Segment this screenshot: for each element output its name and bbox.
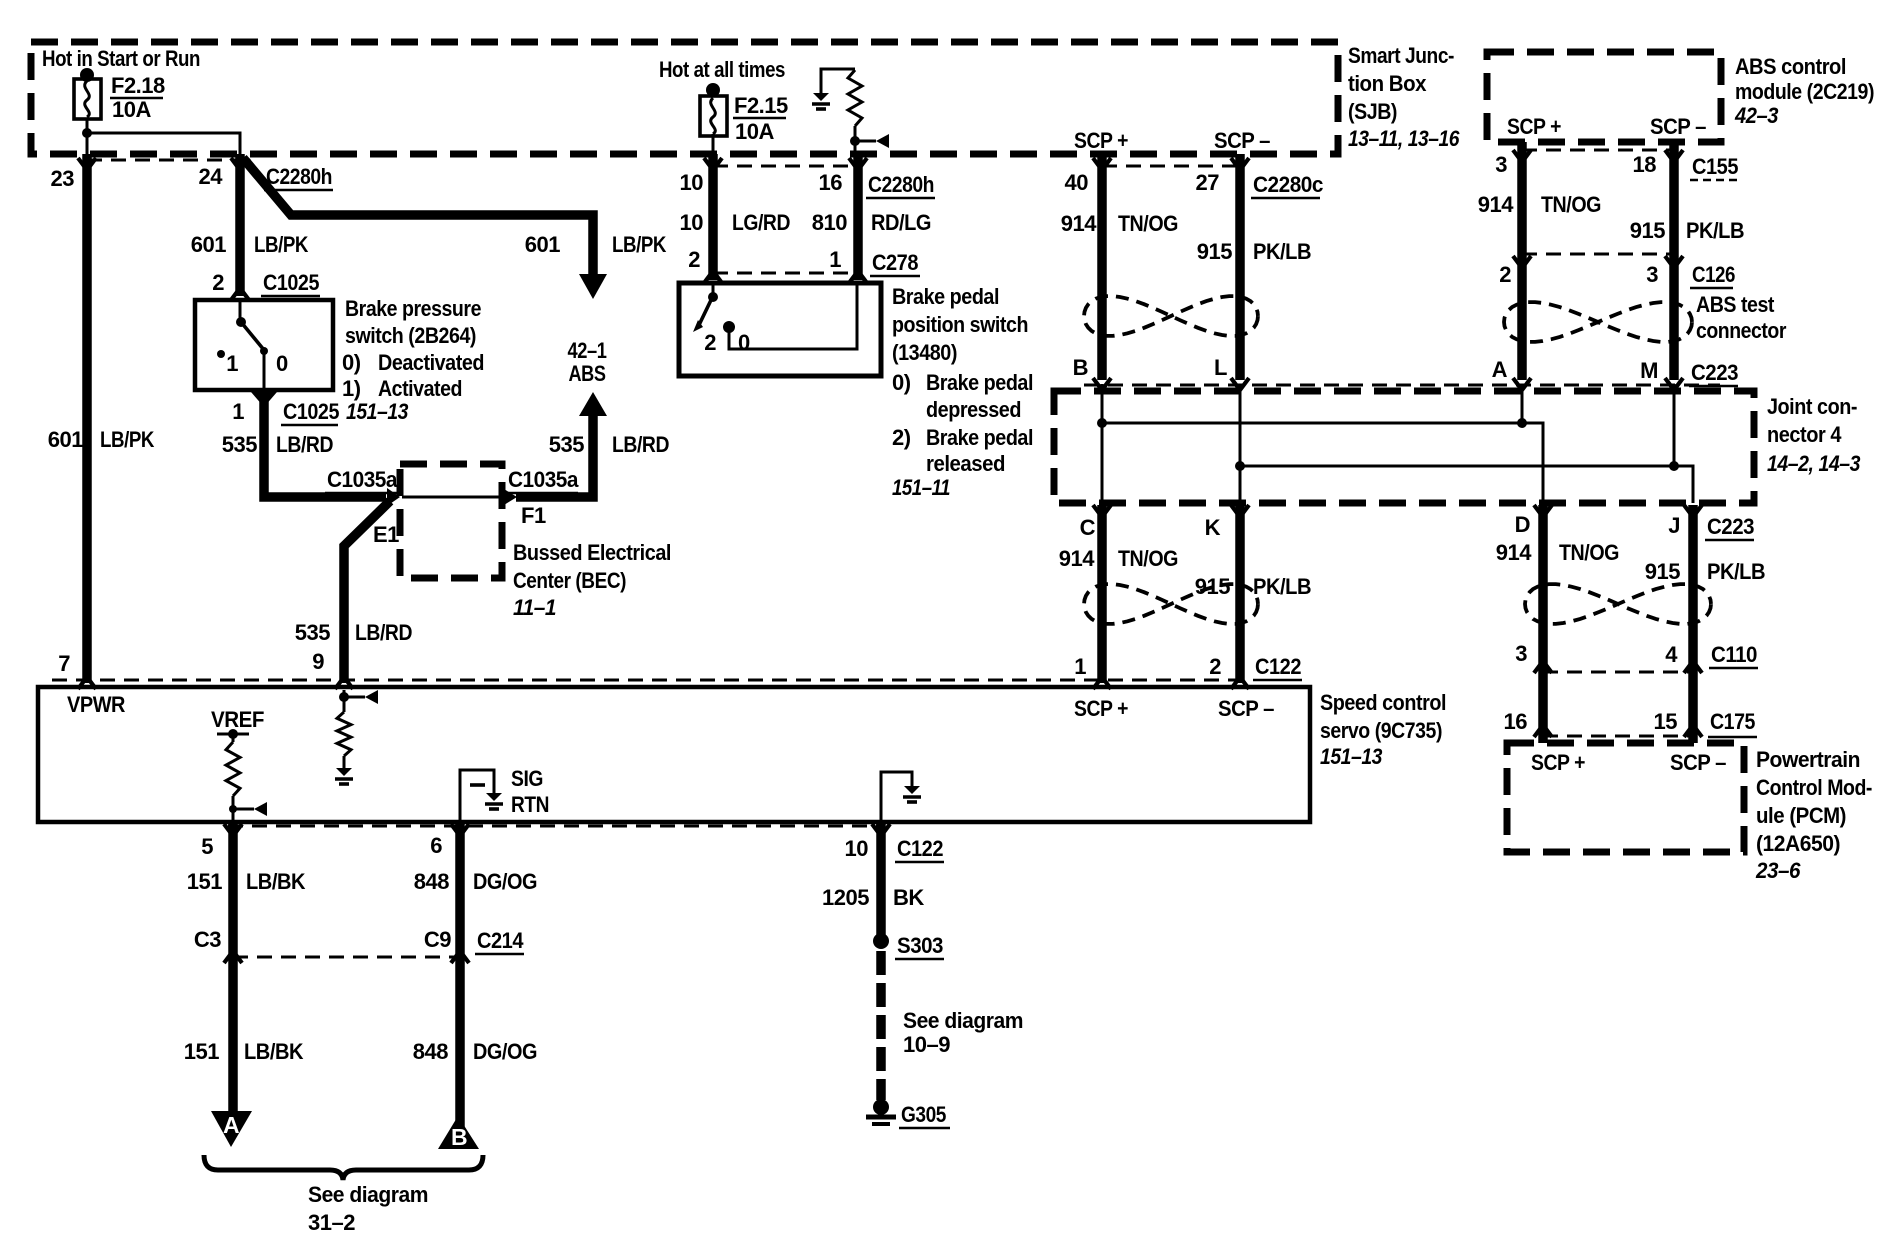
- speed control servo (9C735) box: [38, 687, 1310, 822]
- svg-text:C278: C278: [872, 250, 918, 275]
- ground symbol pin 9: [336, 768, 352, 776]
- svg-text:C3: C3: [194, 927, 221, 952]
- svg-text:B: B: [1073, 355, 1088, 380]
- connector arrow joint connector out pin: [1093, 505, 1111, 517]
- svg-text:C9: C9: [424, 927, 451, 952]
- svg-text:0: 0: [738, 330, 750, 355]
- pedal switch pivot node: [708, 292, 718, 302]
- svg-text:connector: connector: [1696, 318, 1787, 343]
- wire 601 LB/PK to 42-1 ABS: [243, 158, 593, 276]
- svg-text:40: 40: [1065, 170, 1089, 195]
- svg-text:11–1: 11–1: [513, 595, 556, 620]
- svg-text:(13480): (13480): [892, 340, 957, 365]
- ground hook in SJB: [821, 69, 855, 93]
- junction node M bus: [1669, 461, 1679, 471]
- svg-text:LB/PK: LB/PK: [100, 427, 155, 452]
- svg-text:18: 18: [1633, 152, 1657, 177]
- svg-text:151–13: 151–13: [1320, 744, 1382, 769]
- wire 915 PK/LB joint J to PCM pin 15: [1688, 505, 1698, 743]
- brake pedal position switch (13480) box: [679, 283, 881, 376]
- svg-text:module (2C219): module (2C219): [1735, 79, 1874, 104]
- svg-text:B: B: [451, 1124, 467, 1150]
- svg-text:LB/RD: LB/RD: [612, 432, 669, 457]
- connector arrow C1025 pin 2: [231, 288, 249, 300]
- svg-text:F1: F1: [521, 503, 546, 528]
- svg-text:535: 535: [295, 620, 330, 645]
- connector C122 line (servo top): [52, 679, 1245, 682]
- svg-text:PK/LB: PK/LB: [1707, 559, 1765, 584]
- svg-text:TN/OG: TN/OG: [1118, 211, 1178, 236]
- svg-text:C110: C110: [1711, 642, 1757, 667]
- connector arrow C2280h pin: [231, 158, 249, 170]
- svg-text:4: 4: [1665, 642, 1678, 667]
- wire 810 RD/LG pin 16 to pedal switch pin 1: [853, 154, 863, 280]
- pedal switch pivot wire: [712, 285, 715, 297]
- pedal switch arm: [699, 298, 712, 325]
- svg-text:D: D: [1515, 512, 1530, 537]
- svg-text:10: 10: [845, 836, 869, 861]
- svg-text:914: 914: [1496, 540, 1532, 565]
- wire 535 LB/RD BEC F1 to 42-1 ABS: [516, 414, 593, 497]
- junction node below resistor: [850, 136, 860, 146]
- connector arrow C175 pin: [1534, 725, 1552, 737]
- svg-text:SCP +: SCP +: [1507, 114, 1561, 139]
- svg-text:position switch: position switch: [892, 312, 1028, 337]
- pressure switch output wire: [263, 351, 266, 388]
- svg-text:2: 2: [704, 330, 716, 355]
- connector arrow joint connector out pin: [1684, 505, 1702, 517]
- junction node L bus: [1235, 461, 1245, 471]
- svg-text:DG/OG: DG/OG: [473, 1039, 537, 1064]
- connector arrow C278 pin: [849, 271, 867, 283]
- svg-text:RD/LG: RD/LG: [871, 210, 931, 235]
- svg-text:See diagram: See diagram: [903, 1008, 1023, 1033]
- pressure switch pivot wire: [239, 302, 242, 322]
- pin 9 resistor: [337, 712, 351, 756]
- svg-text:SCP +: SCP +: [1531, 750, 1585, 775]
- svg-text:C1025: C1025: [263, 270, 319, 295]
- svg-text:L: L: [1214, 355, 1227, 380]
- ground symbol SIG RTN: [486, 793, 502, 801]
- wire 915 PK/LB joint K to servo pin 2: [1235, 505, 1245, 683]
- connector arrow C2280h pin: [704, 158, 722, 170]
- svg-text:0: 0: [276, 351, 288, 376]
- arrow A: [211, 1111, 252, 1147]
- svg-text:27: 27: [1196, 170, 1220, 195]
- VREF wire: [232, 734, 235, 742]
- svg-text:C223: C223: [1707, 514, 1754, 539]
- svg-text:Hot in Start or Run: Hot in Start or Run: [42, 46, 200, 71]
- wire 535 LB/RD BEC E1 branch to servo pin 9: [344, 501, 390, 683]
- svg-text:(12A650): (12A650): [1756, 831, 1840, 856]
- svg-text:M: M: [1640, 358, 1658, 383]
- svg-text:TN/OG: TN/OG: [1118, 546, 1178, 571]
- svg-text:31–2: 31–2: [308, 1210, 355, 1235]
- connector arrow C126 pin: [1513, 256, 1531, 268]
- svg-text:915: 915: [1645, 559, 1680, 584]
- connector arrow joint connector out pin: [1534, 505, 1552, 517]
- svg-text:SCP –: SCP –: [1218, 696, 1274, 721]
- connector arrow joint connector out pin: [1231, 505, 1249, 517]
- wire 914 TN/OG joint C to servo pin 1: [1097, 505, 1107, 683]
- svg-text:10: 10: [680, 170, 704, 195]
- svg-text:E1: E1: [373, 522, 399, 547]
- pin 9 wiper stub: [344, 696, 365, 699]
- svg-text:SCP +: SCP +: [1074, 128, 1128, 153]
- connector C110 line: [1543, 671, 1693, 674]
- SIG RTN minus mark: [470, 783, 485, 787]
- connector arrow C175 pin: [1684, 725, 1702, 737]
- svg-text:2: 2: [688, 247, 700, 272]
- svg-text:7: 7: [58, 651, 70, 676]
- VREF wire lower: [232, 796, 235, 824]
- brace under A and B: [204, 1155, 483, 1180]
- connector C122 line (servo bottom): [228, 825, 881, 828]
- svg-text:Brake pedal: Brake pedal: [926, 425, 1033, 450]
- arrow out of BEC F1: [504, 489, 517, 505]
- svg-text:16: 16: [819, 170, 843, 195]
- svg-text:601: 601: [48, 427, 83, 452]
- fuse F2.15 10A: [706, 83, 720, 97]
- pressure switch arm: [241, 322, 264, 350]
- joint connector wire B-C: [1101, 384, 1104, 503]
- connector C175 line: [1543, 735, 1693, 738]
- svg-text:servo (9C735): servo (9C735): [1320, 718, 1442, 743]
- svg-text:0): 0): [342, 350, 361, 375]
- svg-text:nector 4: nector 4: [1767, 422, 1842, 447]
- svg-text:151: 151: [184, 1039, 219, 1064]
- svg-text:1: 1: [232, 399, 244, 424]
- svg-text:PK/LB: PK/LB: [1686, 218, 1744, 243]
- svg-text:switch (2B264): switch (2B264): [345, 323, 476, 348]
- svg-text:15: 15: [1654, 709, 1678, 734]
- junction node below F2.18: [82, 128, 92, 138]
- svg-text:0): 0): [892, 370, 911, 395]
- connector C2280h line (pins 10/16): [713, 165, 858, 168]
- connector arrow C223 pin: [1093, 378, 1111, 390]
- svg-text:Deactivated: Deactivated: [378, 350, 484, 375]
- svg-text:1: 1: [829, 247, 841, 272]
- svg-text:C155: C155: [1692, 154, 1738, 179]
- svg-text:C2280h: C2280h: [868, 172, 934, 197]
- svg-text:1): 1): [342, 376, 361, 401]
- svg-text:SCP –: SCP –: [1650, 114, 1706, 139]
- servo pin 9 internal wire: [343, 690, 346, 712]
- svg-text:13–11, 13–16: 13–11, 13–16: [1348, 126, 1460, 151]
- svg-text:C214: C214: [477, 928, 524, 953]
- connector arrow C214 pin: [224, 951, 242, 963]
- pressure switch contact 1 node: [217, 350, 225, 358]
- svg-text:LB/PK: LB/PK: [254, 232, 309, 257]
- svg-text:LB/BK: LB/BK: [246, 869, 306, 894]
- svg-text:DG/OG: DG/OG: [473, 869, 537, 894]
- svg-text:C2280c: C2280c: [1253, 172, 1323, 197]
- svg-text:TN/OG: TN/OG: [1541, 192, 1601, 217]
- svg-text:914: 914: [1059, 546, 1095, 571]
- pin 10 internal wire: [881, 772, 912, 824]
- twisted pair upper left: [1084, 296, 1258, 336]
- svg-text:1: 1: [226, 351, 238, 376]
- svg-text:C122: C122: [897, 836, 943, 861]
- svg-text:A: A: [223, 1112, 239, 1138]
- svg-text:2: 2: [1499, 262, 1511, 287]
- svg-text:810: 810: [812, 210, 847, 235]
- wire 535 LB/RD switch pin 1 to BEC E1: [264, 392, 386, 497]
- splice S303: [873, 933, 889, 949]
- svg-text:SCP +: SCP +: [1074, 696, 1128, 721]
- wire fuse F2.15 to pin 10: [712, 134, 715, 154]
- svg-text:SIG: SIG: [511, 766, 543, 791]
- svg-text:Brake pedal: Brake pedal: [926, 370, 1033, 395]
- joint connector bus lower (L-M-J): [1240, 466, 1693, 503]
- connector arrow C2280h pin: [78, 158, 96, 170]
- Smart Junction Box (SJB) dashed outline: [31, 42, 1338, 154]
- wire 914 TN/OG joint D to PCM pin 16: [1538, 505, 1548, 743]
- svg-text:2: 2: [212, 270, 224, 295]
- wire fuse F2.18 to junction: [86, 119, 89, 154]
- svg-text:2: 2: [1209, 654, 1221, 679]
- connector arrow servo bottom pin: [872, 824, 890, 836]
- svg-text:10A: 10A: [112, 97, 151, 122]
- svg-text:SCP –: SCP –: [1670, 750, 1726, 775]
- svg-text:915: 915: [1195, 574, 1230, 599]
- connector arrow C110 pin: [1684, 661, 1702, 673]
- ABS control module (2C219) dashed outline: [1487, 52, 1721, 142]
- svg-text:9: 9: [312, 649, 324, 674]
- svg-text:151–13: 151–13: [346, 399, 408, 424]
- svg-text:K: K: [1205, 515, 1221, 540]
- joint connector wire M stub: [1673, 384, 1676, 466]
- svg-text:Bussed Electrical: Bussed Electrical: [513, 540, 671, 565]
- ground G305: [873, 1099, 889, 1115]
- connector arrow servo bottom pin: [451, 824, 469, 836]
- svg-text:A: A: [1492, 357, 1508, 382]
- brake pressure switch (2B264) box: [195, 300, 333, 390]
- wire 1205 BK servo pin 10 to S303: [876, 824, 886, 936]
- twisted pair lower left: [1084, 584, 1258, 624]
- wire 601 LB/PK pin 23 to servo pin 7: [82, 154, 92, 683]
- svg-text:3: 3: [1515, 641, 1527, 666]
- svg-text:C1035a: C1035a: [508, 467, 579, 492]
- svg-text:F2.15: F2.15: [734, 93, 788, 118]
- VREF tap bar: [217, 733, 249, 736]
- svg-text:535: 535: [222, 432, 257, 457]
- svg-text:Center (BEC): Center (BEC): [513, 568, 626, 593]
- svg-text:C1025: C1025: [283, 399, 339, 424]
- wire 914 TN/OG SJB pin 40 to joint connector B: [1097, 154, 1107, 380]
- svg-text:Brake pressure: Brake pressure: [345, 296, 481, 321]
- ground symbol pin 10: [904, 786, 920, 794]
- svg-text:601: 601: [525, 232, 560, 257]
- connector arrow C110 pin: [1534, 661, 1552, 673]
- svg-text:14–2, 14–3: 14–2, 14–3: [1767, 451, 1860, 476]
- svg-text:915: 915: [1197, 239, 1232, 264]
- connector arrow C223 pin: [1513, 378, 1531, 390]
- svg-text:LB/BK: LB/BK: [244, 1039, 304, 1064]
- svg-text:RTN: RTN: [511, 792, 549, 817]
- svg-text:VREF: VREF: [211, 707, 264, 732]
- up arrow to 42-1 ABS: [579, 392, 607, 416]
- connector C2280h line (pins 23/24): [87, 159, 240, 162]
- svg-text:ABS control: ABS control: [1735, 54, 1846, 79]
- svg-text:TN/OG: TN/OG: [1559, 540, 1619, 565]
- svg-text:C: C: [1080, 515, 1096, 540]
- svg-text:2): 2): [892, 425, 911, 450]
- svg-text:VPWR: VPWR: [67, 692, 126, 717]
- Bussed Electrical Center (BEC) dashed outline: [400, 464, 502, 578]
- wire 601 LB/PK pin 24 to brake pressure switch pin 2: [235, 154, 245, 296]
- connector arrow servo top pin: [1093, 677, 1111, 689]
- connector C278 line: [713, 272, 858, 275]
- svg-text:J: J: [1668, 513, 1680, 538]
- svg-text:F2.18: F2.18: [111, 73, 165, 98]
- connector arrow C155 pin: [1665, 150, 1683, 162]
- arrow into BEC E1: [387, 488, 400, 506]
- pin 9 resistor to ground: [343, 756, 346, 768]
- svg-text:914: 914: [1061, 211, 1097, 236]
- ground symbol in SJB: [813, 93, 829, 101]
- svg-text:ABS test: ABS test: [1696, 292, 1775, 317]
- svg-text:23: 23: [51, 166, 75, 191]
- fuse F2.18 10A: [80, 68, 94, 82]
- svg-text:C1035a: C1035a: [327, 467, 398, 492]
- connector arrow servo top pin: [1231, 677, 1249, 689]
- connector arrow C2280h pin: [849, 158, 867, 170]
- svg-text:Powertrain: Powertrain: [1756, 747, 1860, 772]
- arrow below pressure switch pin 1: [251, 392, 277, 407]
- joint connector wire A stub: [1521, 384, 1524, 423]
- svg-text:LG/RD: LG/RD: [732, 210, 790, 235]
- svg-text:depressed: depressed: [926, 397, 1021, 422]
- svg-text:23–6: 23–6: [1755, 858, 1801, 883]
- junction node B bus: [1097, 418, 1107, 428]
- svg-text:PK/LB: PK/LB: [1253, 239, 1311, 264]
- joint connector wire L-K: [1239, 384, 1242, 503]
- svg-text:151–11: 151–11: [892, 475, 950, 500]
- BEC internal wire E1 to F1: [402, 496, 502, 499]
- svg-text:tion Box: tion Box: [1348, 71, 1427, 96]
- svg-text:Smart Junc-: Smart Junc-: [1348, 43, 1454, 68]
- svg-text:10: 10: [680, 210, 704, 235]
- SIG RTN internal wire: [460, 770, 494, 824]
- svg-text:1: 1: [1074, 654, 1086, 679]
- wire 151 LB/BK servo pin 5 to A: [228, 824, 238, 1113]
- pedal switch contact 0 node: [723, 321, 735, 333]
- svg-text:PK/LB: PK/LB: [1253, 574, 1311, 599]
- dashed wire S303 to G305: [876, 951, 886, 1100]
- svg-text:3: 3: [1495, 152, 1507, 177]
- svg-text:See diagram: See diagram: [308, 1182, 428, 1207]
- svg-text:Activated: Activated: [378, 376, 462, 401]
- svg-text:151: 151: [187, 869, 222, 894]
- svg-text:BK: BK: [893, 885, 924, 910]
- svg-text:535: 535: [549, 432, 584, 457]
- svg-text:915: 915: [1630, 218, 1665, 243]
- joint connector bus upper (B-A-D): [1102, 423, 1543, 503]
- connector arrow servo bottom pin: [224, 824, 242, 836]
- svg-text:C223: C223: [1691, 360, 1738, 385]
- svg-text:C2280h: C2280h: [266, 164, 332, 189]
- connector C2280c line (pins 40/27): [1102, 165, 1240, 168]
- twisted pair lower right: [1525, 584, 1711, 624]
- connector arrow C214 pin: [451, 951, 469, 963]
- svg-text:5: 5: [201, 834, 213, 859]
- wire resistor to pin 16: [854, 126, 857, 154]
- VREF wiper stub: [233, 808, 254, 811]
- connector C155 line: [1522, 149, 1674, 152]
- svg-text:Joint con-: Joint con-: [1767, 394, 1857, 419]
- svg-text:ABS: ABS: [569, 361, 606, 386]
- svg-text:C122: C122: [1255, 654, 1301, 679]
- connector arrow C223 pin: [1665, 378, 1683, 390]
- svg-text:Hot at all times: Hot at all times: [659, 57, 785, 82]
- svg-text:SCP –: SCP –: [1214, 128, 1270, 153]
- svg-text:Speed control: Speed control: [1320, 690, 1446, 715]
- junction node A bus: [1517, 418, 1527, 428]
- connector arrow C2280c pin: [1231, 158, 1249, 170]
- svg-text:16: 16: [1504, 709, 1528, 734]
- svg-text:ule (PCM): ule (PCM): [1756, 803, 1846, 828]
- svg-text:3: 3: [1646, 262, 1658, 287]
- wire 915 PK/LB ABS pin 18 to joint connector M: [1669, 142, 1679, 380]
- twisted pair ABS test connector: [1504, 302, 1692, 342]
- svg-text:6: 6: [430, 833, 442, 858]
- wire 914 TN/OG ABS pin 3 to joint connector A: [1517, 142, 1527, 380]
- svg-text:1205: 1205: [822, 885, 869, 910]
- svg-text:Control Mod-: Control Mod-: [1756, 775, 1872, 800]
- svg-text:601: 601: [191, 232, 226, 257]
- connector arrow C126 pin: [1665, 256, 1683, 268]
- Joint connector 4 dashed outline: [1054, 391, 1754, 503]
- wire 10 LG/RD pin 10 to pedal switch pin 2: [708, 154, 718, 280]
- arrow to 42-1 ABS: [579, 274, 607, 299]
- resistor in SJB: [848, 70, 862, 126]
- VREF resistor: [226, 742, 240, 796]
- svg-text:848: 848: [414, 869, 449, 894]
- svg-text:42–1: 42–1: [568, 338, 607, 363]
- svg-text:42–3: 42–3: [1734, 103, 1778, 128]
- connector arrow servo top pin: [335, 677, 353, 689]
- svg-text:24: 24: [199, 164, 224, 189]
- connector arrow C223 pin: [1231, 378, 1249, 390]
- svg-text:(SJB): (SJB): [1348, 99, 1397, 124]
- connector C214 line: [233, 956, 460, 959]
- connector C223 line: [1084, 384, 1720, 387]
- arrow B: [438, 1116, 479, 1149]
- svg-text:S303: S303: [897, 933, 943, 958]
- connector arrow C155 pin: [1513, 150, 1531, 162]
- svg-text:released: released: [926, 451, 1005, 476]
- connector C126 line: [1522, 253, 1674, 256]
- svg-text:G305: G305: [901, 1102, 946, 1127]
- connector arrow servo top pin: [78, 677, 96, 689]
- Powertrain Control Module (PCM) dashed outline: [1507, 743, 1744, 852]
- connector arrow C2280c pin: [1093, 158, 1111, 170]
- svg-text:10–9: 10–9: [903, 1032, 950, 1057]
- svg-text:C126: C126: [1692, 262, 1735, 287]
- svg-text:10A: 10A: [735, 119, 774, 144]
- svg-text:LB/PK: LB/PK: [612, 232, 667, 257]
- svg-text:848: 848: [413, 1039, 448, 1064]
- pedal switch internal wire to pin 1: [729, 285, 857, 349]
- wiper arrow stub at resistor: [855, 140, 876, 143]
- svg-text:C175: C175: [1710, 709, 1755, 734]
- wire junction to pin 24: [87, 133, 240, 154]
- pressure switch pivot node: [236, 317, 246, 327]
- svg-text:Brake pedal: Brake pedal: [892, 284, 999, 309]
- wire 848 DG/OG servo pin 6 to B: [455, 824, 465, 1130]
- wire 915 PK/LB SJB pin 27 to joint connector L: [1235, 154, 1245, 380]
